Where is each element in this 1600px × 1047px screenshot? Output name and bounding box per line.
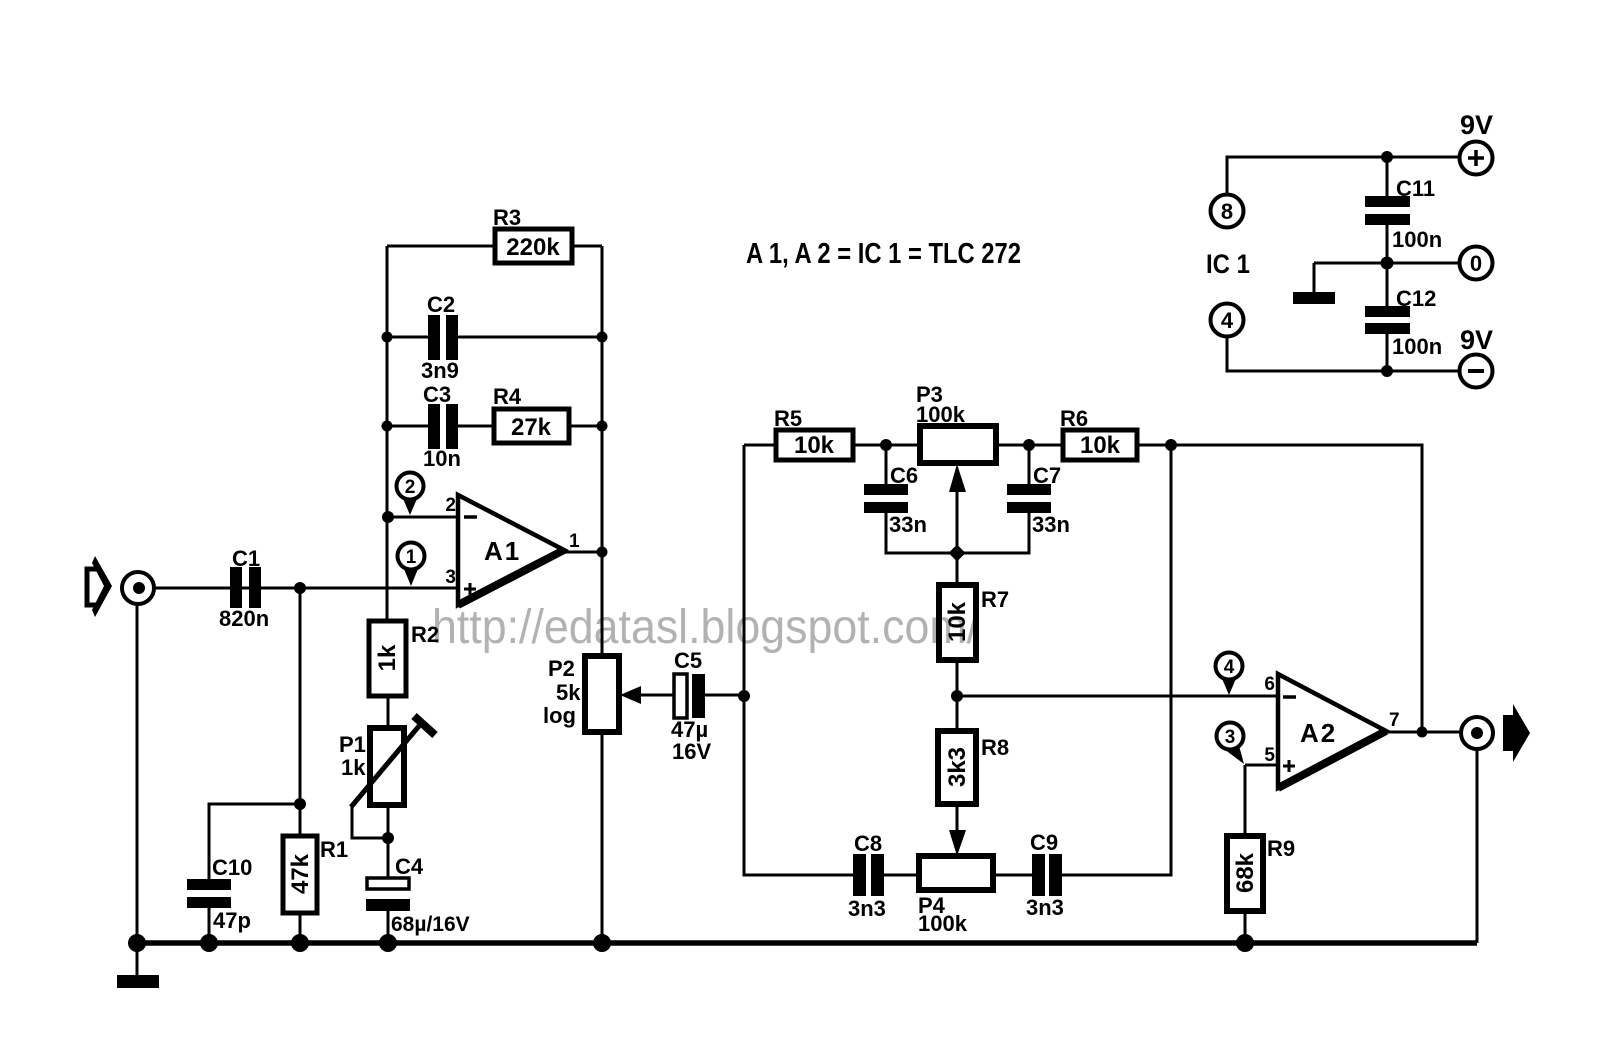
bus dot input xyxy=(128,934,146,952)
svg-text:C9: C9 xyxy=(1030,830,1058,855)
wire input ground stub xyxy=(136,605,139,975)
wire filter left rail xyxy=(744,445,853,875)
svg-text:16V: 16V xyxy=(672,739,711,764)
wire C9 to right rail xyxy=(1061,445,1171,875)
svg-text:R6: R6 xyxy=(1060,406,1088,431)
input ground xyxy=(117,975,159,988)
wire A2 output xyxy=(1386,731,1460,734)
svg-text:1: 1 xyxy=(406,547,417,568)
svg-text:3k3: 3k3 xyxy=(944,747,971,787)
svg-text:http://edatasl.blogspot.com/: http://edatasl.blogspot.com/ xyxy=(432,601,980,654)
node A1 output xyxy=(597,547,608,558)
svg-text:9V: 9V xyxy=(1460,325,1493,355)
bus dot C4 xyxy=(379,934,397,952)
wire C6 branch xyxy=(886,445,957,553)
svg-text:R7: R7 xyxy=(981,587,1009,612)
svg-text:P2: P2 xyxy=(548,656,575,681)
svg-text:47p: 47p xyxy=(213,908,251,933)
wire ground bus xyxy=(137,940,1477,946)
svg-text:9V: 9V xyxy=(1460,110,1493,140)
wire R3 top loop xyxy=(387,245,602,248)
svg-text:2: 2 xyxy=(405,477,416,498)
capacitor C2 xyxy=(421,292,459,383)
wire C10 bottom xyxy=(208,907,211,943)
wire A2 pin5 xyxy=(1245,765,1278,836)
9V plus terminal xyxy=(1460,110,1494,175)
input terminal arrow xyxy=(87,556,112,617)
potentiometer P4 xyxy=(918,856,993,936)
node R6 right xyxy=(1165,439,1177,451)
bus dot R1 xyxy=(291,934,309,952)
svg-text:100n: 100n xyxy=(1392,334,1442,359)
svg-text:3n3: 3n3 xyxy=(848,896,886,921)
svg-text:R1: R1 xyxy=(320,837,348,862)
svg-text:0: 0 xyxy=(1470,251,1482,276)
svg-text:68k: 68k xyxy=(1232,852,1259,893)
svg-text:C11: C11 xyxy=(1396,176,1435,201)
svg-text:2: 2 xyxy=(445,495,456,516)
wire C12 stems xyxy=(1386,263,1389,371)
resistor R7 xyxy=(939,585,1009,660)
wire R7 stems xyxy=(956,558,959,696)
wire C3-R4 row xyxy=(387,425,602,428)
svg-text:27k: 27k xyxy=(511,414,552,441)
node C5 junction xyxy=(738,690,750,702)
node marker 3 xyxy=(1217,723,1245,765)
svg-text:100k: 100k xyxy=(918,911,968,936)
resistor R9 xyxy=(1227,836,1295,911)
wire pin2 net vertical xyxy=(386,246,389,621)
9V minus terminal xyxy=(1460,325,1494,388)
node R4 right xyxy=(597,421,608,432)
capacitor C6 xyxy=(864,463,927,537)
0V terminal xyxy=(1460,247,1493,280)
wire P4 to C9 xyxy=(993,874,1032,877)
node A2 output xyxy=(1417,727,1428,738)
capacitor C3 xyxy=(423,382,461,471)
svg-text:8: 8 xyxy=(1221,199,1233,224)
svg-text:47k: 47k xyxy=(287,853,314,894)
wire 0V row xyxy=(1314,262,1459,265)
svg-text:1k: 1k xyxy=(341,755,366,780)
capacitor C8 xyxy=(848,831,886,921)
svg-text:R3: R3 xyxy=(493,205,521,230)
supply ground xyxy=(1293,292,1335,304)
wire C2 row xyxy=(387,336,602,339)
node marker 1 xyxy=(398,543,425,587)
svg-text:C12: C12 xyxy=(1396,286,1436,311)
node marker 2 xyxy=(397,473,424,516)
node P1 wiper xyxy=(382,832,394,844)
node C10 corner xyxy=(294,798,306,810)
capacitor C11 xyxy=(1365,176,1442,252)
node supply top xyxy=(1381,151,1393,163)
wire supply bottom xyxy=(1227,337,1459,371)
svg-text:3n9: 3n9 xyxy=(421,358,459,383)
svg-text:A2: A2 xyxy=(1300,718,1337,748)
resistor R4 xyxy=(493,384,569,443)
resistor R5 xyxy=(774,406,853,460)
svg-text:C8: C8 xyxy=(854,831,882,856)
wire R2 bottom to P1 xyxy=(387,696,390,728)
svg-text:7: 7 xyxy=(1389,710,1400,731)
svg-text:820n: 820n xyxy=(219,606,269,631)
wire C11 stems xyxy=(1386,157,1389,263)
capacitor C10 xyxy=(187,855,252,933)
output terminal socket xyxy=(1461,717,1493,749)
potentiometer P1 xyxy=(339,716,435,807)
svg-text:5: 5 xyxy=(1264,745,1275,766)
svg-text:10k: 10k xyxy=(1080,432,1121,459)
wire R5 row xyxy=(744,444,920,447)
node P3-R6 xyxy=(1023,439,1035,451)
node input-R1 xyxy=(294,582,306,594)
svg-text:C7: C7 xyxy=(1033,463,1061,488)
wire A1 output column xyxy=(601,246,604,943)
svg-text:10n: 10n xyxy=(423,446,461,471)
bus dot C10 xyxy=(200,934,218,952)
svg-text:1: 1 xyxy=(569,531,580,552)
svg-text:220k: 220k xyxy=(506,234,560,261)
wire R8 stems xyxy=(956,696,959,834)
op-amp A2 xyxy=(1264,674,1399,788)
capacitor C4 electrolytic xyxy=(366,854,470,936)
wire supply top xyxy=(1227,157,1459,194)
wire P1 wiper link xyxy=(352,806,388,838)
svg-text:C6: C6 xyxy=(890,463,918,488)
wire input row to A1 pin3 xyxy=(138,587,458,590)
bus dot R9 xyxy=(1236,934,1254,952)
capacitor C7 xyxy=(1007,463,1070,537)
svg-text:P1: P1 xyxy=(339,732,366,757)
output arrow xyxy=(1503,704,1530,762)
svg-text:33n: 33n xyxy=(889,512,927,537)
wire R1 top xyxy=(299,804,302,836)
wire P3 wiper stem xyxy=(956,488,959,553)
svg-text:3: 3 xyxy=(445,567,456,588)
op-amp A1 xyxy=(445,495,580,605)
wire C5 right xyxy=(705,694,744,697)
node R7-R8 xyxy=(951,690,963,702)
wire C4 bottom xyxy=(387,911,390,943)
capacitor C12 xyxy=(1365,286,1442,359)
pin 4 terminal xyxy=(1211,304,1244,337)
node C2 left xyxy=(382,332,393,343)
svg-text:A 1, A 2 = IC 1 = TLC 272: A 1, A 2 = IC 1 = TLC 272 xyxy=(746,238,1021,270)
wire R6 to feedback corner xyxy=(1171,445,1422,732)
wire A1 pin2 xyxy=(388,516,458,519)
svg-text:IC 1: IC 1 xyxy=(1206,249,1250,279)
svg-text:10k: 10k xyxy=(794,432,835,459)
svg-text:A1: A1 xyxy=(484,536,521,566)
node C6-C7 diamond xyxy=(949,545,966,562)
node supply mid xyxy=(1381,257,1394,270)
wire R1 bottom xyxy=(299,913,302,943)
wiper arrow into P4 xyxy=(949,830,966,856)
potentiometer P3 xyxy=(916,382,996,492)
wire A2 pin6 row xyxy=(957,695,1278,698)
svg-text:1k: 1k xyxy=(374,644,401,671)
wire C8 row xyxy=(884,874,919,877)
node C2 right xyxy=(597,332,608,343)
svg-text:C4: C4 xyxy=(395,854,424,879)
svg-text:6: 6 xyxy=(1264,674,1275,695)
wire C7 branch xyxy=(957,445,1029,553)
wire R9 bottom xyxy=(1244,911,1247,943)
svg-text:R5: R5 xyxy=(774,406,802,431)
svg-text:C3: C3 xyxy=(423,382,451,407)
svg-text:R9: R9 xyxy=(1267,836,1295,861)
wire A1 output xyxy=(564,551,602,554)
svg-text:5k: 5k xyxy=(556,680,581,705)
bus dot P2 xyxy=(593,934,611,952)
pin 8 terminal xyxy=(1211,195,1244,228)
input terminal socket xyxy=(122,572,154,604)
node pin2 xyxy=(382,511,394,523)
svg-text:4: 4 xyxy=(1221,308,1234,333)
wire P3 to R6 row xyxy=(996,444,1171,447)
resistor R2 xyxy=(369,621,439,696)
potentiometer P2 xyxy=(543,656,641,732)
capacitor C9 xyxy=(1026,830,1064,920)
svg-text:C1: C1 xyxy=(232,546,260,571)
capacitor C5 electrolytic xyxy=(671,648,711,764)
svg-text:33n: 33n xyxy=(1032,512,1070,537)
svg-text:68µ/16V: 68µ/16V xyxy=(391,913,470,936)
node C3 left xyxy=(382,421,393,432)
svg-text:3: 3 xyxy=(1225,727,1236,748)
svg-text:C2: C2 xyxy=(427,292,455,317)
svg-text:100n: 100n xyxy=(1392,227,1442,252)
svg-text:R8: R8 xyxy=(981,735,1009,760)
wire C10 branch xyxy=(209,804,300,879)
svg-text:C10: C10 xyxy=(212,855,252,880)
svg-text:100k: 100k xyxy=(916,402,966,427)
svg-text:R4: R4 xyxy=(493,384,522,409)
resistor R1 xyxy=(283,836,348,913)
wire node C1-R1 vertical xyxy=(299,588,302,804)
node marker 4 xyxy=(1216,653,1243,696)
node supply bottom xyxy=(1381,365,1393,377)
capacitor C1 xyxy=(219,546,269,631)
svg-text:4: 4 xyxy=(1224,657,1235,678)
wire supply ground stub xyxy=(1313,263,1316,292)
node R5-P3 xyxy=(880,439,892,451)
wire P2 wiper to C5 xyxy=(640,694,674,697)
wire P1 bottom to C4 xyxy=(387,805,390,879)
resistor R6 xyxy=(1060,406,1137,460)
resistor R3 xyxy=(493,205,572,263)
svg-text:3n3: 3n3 xyxy=(1026,895,1064,920)
svg-text:log: log xyxy=(543,703,576,728)
wire output down xyxy=(1476,750,1479,943)
resistor R8 xyxy=(938,731,1009,804)
